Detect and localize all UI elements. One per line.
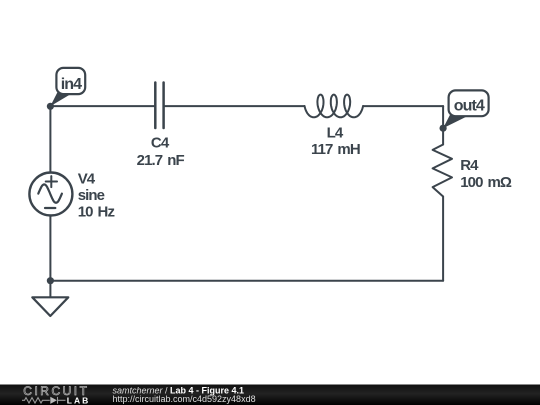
node in4 flag pointer [50,93,71,107]
inductor L4 [305,95,364,118]
svg-text:V4: V4 [78,171,96,188]
CircuitLab logo zigzag resistor [22,397,66,404]
wire left rail lower (V4 to bottom) [49,215,51,280]
svg-text:L4: L4 [327,125,344,142]
node dot ground [47,277,54,284]
svg-text:LAB: LAB [67,395,90,405]
V4 minus sign [45,207,55,209]
node out4 flag pointer [443,114,468,128]
svg-text:in4: in4 [61,76,82,93]
node out4 flag box [449,90,489,116]
wire top-left (in4 to C4) [50,105,155,107]
svg-text:117 mH: 117 mH [311,141,360,158]
svg-text:100 mΩ: 100 mΩ [460,174,512,191]
wire R4 to bottom corner [442,197,444,281]
V4 sine symbol [38,184,62,202]
svg-text:http://circuitlab.com/c4d592zy: http://circuitlab.com/c4d592zy48xd8 [113,394,256,404]
svg-text:sine: sine [78,187,105,204]
svg-text:10 Hz: 10 Hz [78,203,115,220]
node in4 flag box [56,68,85,94]
CircuitLab logo diode [50,397,57,404]
wire L4 to corner [363,105,443,107]
V4 plus sign [46,176,57,187]
node dot in4 [47,103,54,110]
svg-text:C4: C4 [151,135,170,152]
resistor R4 [433,145,452,197]
wire C4 to L4 [164,105,305,107]
wire bottom [50,280,443,282]
node dot out4 [440,125,447,132]
capacitor C4 [155,83,163,129]
voltage source V4 [29,173,72,216]
ground symbol [32,297,68,316]
svg-text:out4: out4 [454,98,485,115]
ground stub wire [49,281,51,298]
wire corner down to R4 [442,106,444,144]
svg-text:21.7 nF: 21.7 nF [137,152,185,169]
svg-text:R4: R4 [460,157,479,174]
wire left rail upper (in4 down to V4) [49,106,51,173]
